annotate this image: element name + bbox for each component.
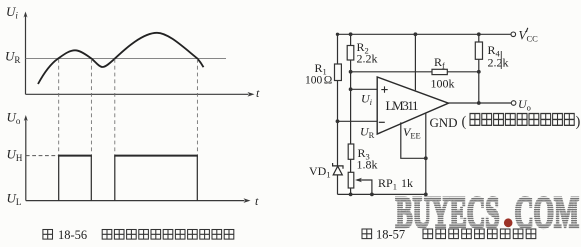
- svg-text:t: t: [256, 86, 260, 100]
- minus sign at inverting input: [379, 121, 385, 123]
- svg-text:CC: CC: [527, 34, 539, 44]
- junction dot bottom rail / R3 branch: [349, 193, 353, 197]
- junction dot noninv input: [349, 87, 353, 91]
- graph2 x-axis arrowhead: [244, 198, 251, 203]
- dashed timing line 3: [114, 59, 116, 155]
- terminal VCC: [511, 32, 516, 37]
- svg-text:): ): [576, 114, 581, 130]
- svg-text:100k: 100k: [431, 77, 455, 91]
- junction dot VEE-GND tie: [424, 156, 428, 160]
- junction dot R2 bottom / Rf line: [349, 70, 353, 74]
- svg-text:UL: UL: [7, 191, 22, 208]
- svg-text:100Ω: 100Ω: [305, 75, 332, 87]
- svg-text:LM311: LM311: [386, 98, 419, 113]
- threshold line UR: [26, 58, 227, 60]
- svg-text:Ui: Ui: [361, 92, 373, 107]
- wire: R2/R3 divider branch vertical: [350, 34, 352, 194]
- wire: RP1 wiper to bottom rail: [357, 180, 372, 194]
- svg-text:VD1: VD1: [309, 164, 331, 179]
- svg-text:COM: COM: [515, 188, 580, 237]
- resistor R2: [347, 46, 354, 61]
- graph1 x-axis: [26, 93, 249, 95]
- svg-text:Rf: Rf: [434, 55, 445, 70]
- potentiometer RP1 wiper arrowhead: [355, 178, 362, 183]
- svg-text:2.2k: 2.2k: [357, 52, 378, 66]
- junction dot top rail / R2: [349, 32, 353, 36]
- junction dot top-left corner: [336, 33, 339, 36]
- wire: GND pin vertical: [425, 114, 427, 195]
- dashed timing line 4: [196, 59, 198, 155]
- output pulse 2: [115, 156, 198, 201]
- scan artifact line through R4 value: [500, 51, 502, 69]
- junction dot top rail / power pin: [414, 32, 418, 36]
- wire: top VCC rail: [338, 33, 511, 35]
- resistor R1: [335, 64, 342, 81]
- wire: left branch R1/VD1 vertical: [337, 34, 339, 194]
- dashed timing line 2: [90, 59, 92, 155]
- terminal Uo: [511, 101, 516, 106]
- input waveform curve: [38, 33, 204, 84]
- svg-text:Ui: Ui: [6, 4, 18, 21]
- svg-text:UR: UR: [360, 125, 375, 140]
- wire: inverting input line: [338, 120, 378, 122]
- dashed timing line 1: [58, 59, 60, 155]
- junction dot bottom rail / GND line: [424, 193, 428, 197]
- caption figure 18-57: [362, 228, 536, 242]
- plus sign at non-inverting input: [381, 86, 387, 92]
- watermark BUYECS.COM striped: [396, 188, 580, 237]
- svg-text:18-57: 18-57: [376, 228, 405, 242]
- graph2 y-axis arrowhead: [24, 115, 28, 121]
- svg-text:1.8k: 1.8k: [357, 158, 378, 172]
- wire: VEE pin down and across: [401, 122, 426, 158]
- graph2 y-axis: [25, 119, 27, 201]
- svg-text:Uo: Uo: [7, 110, 21, 127]
- resistor R3: [348, 144, 354, 159]
- junction dot top rail / R4: [477, 32, 481, 36]
- wire: Rf horizontal feed line: [351, 71, 479, 73]
- note: output alarm signal annotation (hanzi): [462, 114, 581, 130]
- wire: output line: [449, 102, 512, 104]
- wire: R4 branch vertical: [478, 34, 480, 103]
- graph1 x-axis arrowhead: [248, 92, 255, 97]
- svg-text:Uo: Uo: [518, 97, 531, 112]
- wire: non-inverting input line: [351, 88, 377, 90]
- svg-text:18-56: 18-56: [58, 228, 87, 242]
- op-amp U1 LM311 triangle: [377, 77, 448, 134]
- graph1 y-axis: [25, 14, 27, 95]
- potentiometer RP1 body: [348, 172, 354, 188]
- graph2 x-axis: [26, 200, 245, 202]
- svg-text:2.2k: 2.2k: [488, 56, 509, 70]
- svg-text:(: (: [462, 114, 467, 130]
- wire: power pin vertical to op-amp top edge: [414, 34, 416, 90]
- svg-text:UH: UH: [7, 147, 23, 164]
- output pulse 1: [59, 156, 92, 201]
- caption figure 18-56: [43, 228, 234, 242]
- resistor Rf (horizontal): [432, 69, 447, 74]
- svg-text:VEE: VEE: [403, 125, 421, 140]
- junction dot Rf right / R4 branch: [477, 70, 481, 74]
- wire: bottom ground rail: [338, 193, 426, 195]
- junction dot output / R4: [477, 101, 481, 105]
- svg-text:UR: UR: [5, 49, 20, 66]
- resistor R4: [475, 42, 482, 59]
- zener diode VD1: [333, 163, 343, 175]
- svg-text:t: t: [255, 194, 259, 208]
- junction dot inverting line / R1 branch: [336, 119, 340, 123]
- graph1 y-axis arrowhead: [24, 12, 28, 18]
- UH dashed level line: [26, 155, 58, 157]
- junction dot bottom rail / wiper: [370, 193, 374, 197]
- svg-text:GND: GND: [430, 115, 458, 130]
